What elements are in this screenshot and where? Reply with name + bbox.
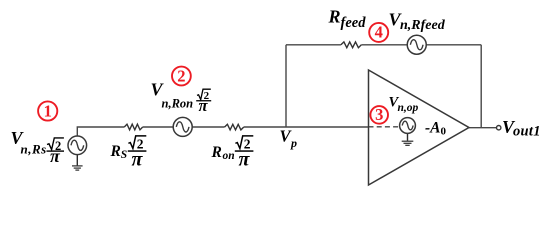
svg-text:out1: out1 [513,124,541,140]
svg-text:-A: -A [425,119,441,136]
svg-text:n,op: n,op [398,102,419,114]
svg-text:2: 2 [177,67,185,86]
svg-text:S: S [121,149,127,161]
svg-text:π: π [132,149,144,171]
svg-text:π: π [239,149,251,171]
svg-text:π: π [50,146,61,166]
svg-text:feed: feed [341,15,367,31]
svg-text:4: 4 [375,23,383,42]
svg-text:n,Ron: n,Ron [162,97,194,111]
svg-text:n,Rfeed: n,Rfeed [400,18,446,33]
svg-text:n,Rs: n,Rs [21,142,47,157]
svg-text:p: p [290,136,297,150]
svg-text:3: 3 [375,105,383,124]
svg-text:on: on [223,150,235,162]
svg-text:π: π [199,96,209,115]
svg-text:0: 0 [441,126,447,138]
svg-text:R: R [211,144,222,161]
svg-text:1: 1 [44,102,52,121]
svg-text:R: R [328,6,341,26]
svg-text:R: R [110,143,121,160]
